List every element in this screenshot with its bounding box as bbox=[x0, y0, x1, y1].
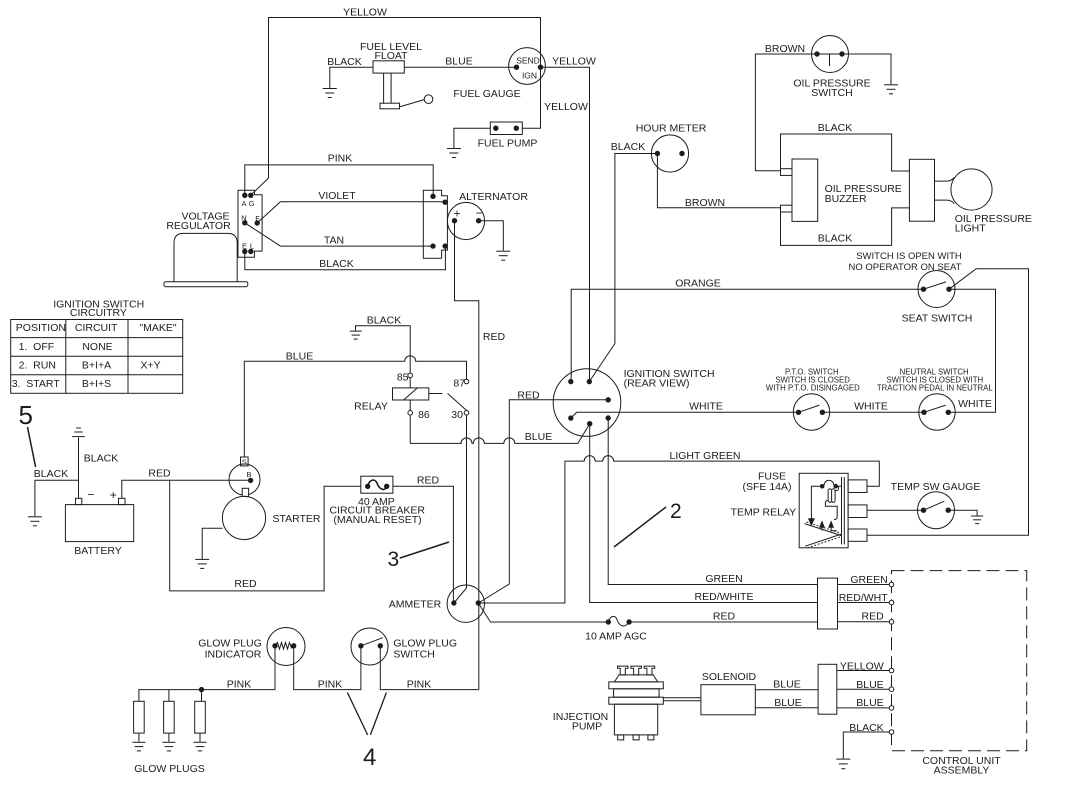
wire oil switch right to ground bbox=[842, 54, 898, 94]
svg-text:TEMP SW GAUGE: TEMP SW GAUGE bbox=[891, 481, 981, 493]
wire PINK regulator A to alternator connector bbox=[245, 165, 433, 196]
svg-text:BLUE: BLUE bbox=[445, 56, 472, 68]
svg-text:TRACTION PEDAL IN NEUTRAL: TRACTION PEDAL IN NEUTRAL bbox=[877, 384, 993, 393]
glow plug indicator bbox=[267, 628, 305, 666]
wire PINK bus glow plugs to indicator bbox=[139, 646, 275, 702]
svg-text:BLACK: BLACK bbox=[849, 722, 883, 734]
svg-text:SOLENOID: SOLENOID bbox=[702, 671, 757, 683]
svg-text:YELLOW: YELLOW bbox=[552, 56, 596, 68]
svg-text:(REAR VIEW): (REAR VIEW) bbox=[624, 378, 690, 390]
svg-text:GREEN: GREEN bbox=[850, 574, 887, 586]
injection pump bbox=[609, 666, 664, 740]
svg-text:RED: RED bbox=[862, 610, 885, 622]
svg-text:85: 85 bbox=[397, 372, 409, 384]
oil pressure light socket bbox=[909, 159, 934, 221]
svg-text:TAN: TAN bbox=[324, 235, 344, 247]
svg-text:−: − bbox=[475, 206, 482, 220]
svg-text:WHITE: WHITE bbox=[689, 401, 723, 413]
svg-text:LIGHT GREEN: LIGHT GREEN bbox=[670, 450, 741, 462]
pipe injection pump to solenoid bbox=[663, 698, 701, 701]
svg-text:YELLOW: YELLOW bbox=[544, 101, 588, 113]
wire TAN regulator N to alternator connector bbox=[245, 223, 433, 246]
control unit assembly box bbox=[892, 571, 1027, 751]
svg-text:INDICATOR: INDICATOR bbox=[205, 649, 262, 661]
svg-text:CIRCUITRY: CIRCUITRY bbox=[70, 307, 127, 319]
wire relay 30 down to ammeter bbox=[454, 415, 467, 603]
glow plug switch bbox=[351, 628, 388, 665]
glow plugs (three) bbox=[132, 701, 206, 751]
wire RED fuse to connector bbox=[629, 621, 817, 623]
PTO switch bbox=[793, 394, 829, 430]
wire RED ignition to ammeter bbox=[478, 400, 608, 603]
svg-text:1. OFF: 1. OFF bbox=[19, 341, 55, 353]
svg-text:10 AMP AGC: 10 AMP AGC bbox=[585, 630, 647, 642]
svg-text:B+I+A: B+I+A bbox=[82, 359, 111, 371]
wire BLACK regulator E to alternator connector bbox=[245, 246, 446, 270]
svg-text:RELAY: RELAY bbox=[354, 401, 388, 413]
svg-text:BLUE: BLUE bbox=[856, 697, 883, 709]
voltage regulator body bbox=[164, 233, 248, 286]
svg-text:BUZZER: BUZZER bbox=[825, 193, 867, 205]
wire BLACK control unit to ground bbox=[836, 732, 889, 769]
svg-text:LIGHT: LIGHT bbox=[955, 223, 987, 235]
svg-text:YELLOW: YELLOW bbox=[343, 7, 387, 19]
svg-text:FLOAT: FLOAT bbox=[374, 50, 408, 62]
oil pressure buzzer bbox=[781, 159, 818, 221]
svg-text:RED/WHT: RED/WHT bbox=[839, 592, 889, 604]
ignition switch circuitry table bbox=[11, 298, 183, 393]
wire YELLOW top loop (regulator G to fuel gauge / fuel pump) bbox=[251, 18, 541, 196]
fuel gauge bbox=[509, 48, 546, 85]
svg-text:−: − bbox=[87, 488, 94, 502]
svg-text:RED: RED bbox=[417, 474, 440, 486]
wire BLUE solenoid upper bbox=[755, 689, 818, 691]
alternator bbox=[447, 202, 484, 239]
wire PINK indicator to glow switch bbox=[294, 646, 361, 690]
svg-text:(SFE 14A): (SFE 14A) bbox=[742, 481, 791, 493]
control unit terminals bbox=[889, 582, 894, 734]
regulator connector bbox=[238, 190, 262, 257]
svg-text:NO OPERATOR ON SEAT: NO OPERATOR ON SEAT bbox=[849, 262, 962, 273]
ignition switch bbox=[553, 369, 621, 437]
svg-text:B+I+S: B+I+S bbox=[82, 378, 111, 390]
svg-text:BROWN: BROWN bbox=[765, 43, 805, 55]
wire PINK glow switch to alternator RED line bbox=[380, 646, 479, 690]
svg-text:BLUE: BLUE bbox=[856, 679, 883, 691]
wire LIGHT GREEN ammeter to temp relay T1 (with hops) bbox=[478, 456, 879, 603]
hour meter bbox=[651, 135, 688, 172]
wire GREEN ignition to connector bbox=[608, 418, 817, 585]
svg-text:PINK: PINK bbox=[318, 679, 343, 691]
10 AMP AGC fuse bbox=[606, 616, 631, 626]
svg-text:VIOLET: VIOLET bbox=[318, 190, 356, 202]
seat switch bbox=[918, 271, 955, 308]
svg-text:BLACK: BLACK bbox=[84, 453, 118, 465]
neutral switch bbox=[919, 394, 955, 430]
svg-text:5: 5 bbox=[19, 400, 33, 430]
svg-text:AMMETER: AMMETER bbox=[389, 598, 442, 610]
connector harness right lower bbox=[818, 664, 837, 714]
svg-text:87: 87 bbox=[453, 378, 465, 390]
wire RED alternator plus down to ammeter and glow plug bus bbox=[455, 221, 479, 690]
wire BLUE starter S to relay 87 (with hop) bbox=[244, 356, 466, 457]
starter bbox=[222, 457, 265, 540]
wire VIOLET regulator F to alternator connector bbox=[257, 202, 445, 223]
svg-text:CIRCUIT: CIRCUIT bbox=[75, 322, 118, 334]
svg-text:B: B bbox=[246, 470, 251, 479]
svg-text:BLUE: BLUE bbox=[773, 679, 800, 691]
wire temp gauge to ground bbox=[948, 510, 983, 523]
svg-text:BLUE: BLUE bbox=[774, 697, 801, 709]
wire temp relay T2 to temp gauge bbox=[867, 509, 924, 511]
svg-text:RED: RED bbox=[234, 578, 257, 590]
wire starter motor to ground bbox=[195, 528, 222, 568]
svg-text:WHITE: WHITE bbox=[854, 401, 888, 413]
alternator connector bbox=[423, 190, 447, 258]
svg-text:RED: RED bbox=[517, 389, 540, 401]
svg-text:PINK: PINK bbox=[407, 679, 432, 691]
svg-text:SWITCH: SWITCH bbox=[811, 87, 852, 99]
wire relay 86 down to BLUE ignition wire bbox=[409, 415, 411, 443]
wires connector2 to control unit bbox=[837, 671, 890, 708]
svg-text:WHITE: WHITE bbox=[958, 398, 992, 410]
callout 5 bbox=[19, 400, 36, 467]
svg-text:ASSEMBLY: ASSEMBLY bbox=[934, 765, 990, 777]
wire seat switch to temp relay T3 bbox=[867, 269, 1029, 536]
wire BLUE solenoid lower bbox=[755, 707, 818, 709]
svg-text:BLUE: BLUE bbox=[286, 351, 313, 363]
svg-text:BLUE: BLUE bbox=[525, 431, 552, 443]
svg-text:BLACK: BLACK bbox=[34, 468, 68, 480]
svg-text:X+Y: X+Y bbox=[141, 359, 161, 371]
svg-text:SWITCH IS OPEN WITH: SWITCH IS OPEN WITH bbox=[856, 251, 962, 262]
svg-text:STARTER: STARTER bbox=[272, 513, 320, 525]
svg-text:A: A bbox=[241, 199, 246, 208]
svg-text:SEND: SEND bbox=[516, 56, 540, 66]
svg-text:ORANGE: ORANGE bbox=[675, 278, 721, 290]
svg-text:SEAT SWITCH: SEAT SWITCH bbox=[902, 313, 973, 325]
callout 3 bbox=[388, 542, 450, 571]
wire BLUE ignition to relay 86 (with hops) bbox=[410, 424, 590, 444]
svg-text:POSITION: POSITION bbox=[16, 322, 66, 334]
svg-text:RED: RED bbox=[483, 331, 506, 343]
svg-text:PUMP: PUMP bbox=[572, 721, 602, 733]
wire BLACK fuel float left + ground bbox=[323, 67, 373, 97]
callout 2 bbox=[614, 500, 682, 547]
svg-text:G: G bbox=[249, 199, 255, 208]
temp sw gauge bbox=[918, 492, 955, 529]
svg-text:PINK: PINK bbox=[328, 153, 353, 165]
svg-text:RED: RED bbox=[713, 610, 736, 622]
svg-text:S: S bbox=[242, 458, 247, 467]
ammeter bbox=[447, 585, 484, 622]
wire ORANGE ignition to seat switch bbox=[571, 289, 923, 381]
fuel level float bbox=[373, 61, 433, 109]
svg-text:FUEL PUMP: FUEL PUMP bbox=[478, 138, 538, 150]
svg-text:3: 3 bbox=[388, 548, 400, 571]
wire BLACK relay 85 to ground bbox=[350, 326, 411, 373]
svg-text:NONE: NONE bbox=[82, 341, 112, 353]
oil pressure switch bbox=[812, 36, 849, 73]
wire RED circuit breaker to ammeter bbox=[393, 486, 454, 603]
wire oil switch left to buzzer tab1 bbox=[755, 54, 817, 171]
svg-text:WITH P.T.O. DISINGAGED: WITH P.T.O. DISINGAGED bbox=[766, 384, 860, 393]
svg-text:BLACK: BLACK bbox=[611, 141, 645, 153]
svg-text:SWITCH: SWITCH bbox=[393, 649, 434, 661]
wires connector to control unit (GREEN RED/WHT RED) bbox=[838, 585, 890, 622]
battery bbox=[65, 488, 133, 542]
oil pressure buzzer loop top (BLACK) bbox=[781, 134, 910, 171]
svg-text:2. RUN: 2. RUN bbox=[19, 359, 56, 371]
svg-text:BLACK: BLACK bbox=[818, 233, 852, 245]
svg-text:GLOW PLUG: GLOW PLUG bbox=[198, 637, 262, 649]
svg-text:4: 4 bbox=[363, 744, 376, 771]
svg-text:2: 2 bbox=[670, 500, 682, 523]
svg-text:GLOW PLUGS: GLOW PLUGS bbox=[134, 763, 205, 775]
svg-text:RED/WHITE: RED/WHITE bbox=[695, 591, 754, 603]
wire WHITE ignition to PTO switch bbox=[571, 412, 799, 418]
svg-text:YELLOW: YELLOW bbox=[840, 660, 884, 672]
wire alternator minus to ground bbox=[479, 221, 511, 261]
fuel pump bbox=[490, 122, 522, 135]
svg-text:GREEN: GREEN bbox=[705, 573, 742, 585]
wire seat switch to neutral switch bbox=[948, 289, 995, 412]
svg-text:"MAKE": "MAKE" bbox=[139, 322, 176, 334]
connector harness right upper bbox=[818, 578, 838, 629]
wire BLACK battery minus to top ground bbox=[72, 428, 85, 498]
wire RED battery to circuit breaker bbox=[170, 480, 361, 591]
svg-text:BATTERY: BATTERY bbox=[74, 545, 121, 557]
circuit breaker 40 AMP bbox=[361, 476, 393, 493]
oil pressure buzzer loop bottom (BLACK) bbox=[781, 208, 910, 246]
wire RED ammeter to 10 AMP AGC fuse bbox=[478, 603, 608, 622]
wire fuel pump to ground bbox=[447, 128, 490, 157]
temp relay bbox=[799, 473, 867, 548]
wire BLUE float to gauge bbox=[404, 66, 516, 68]
svg-text:PINK: PINK bbox=[227, 679, 252, 691]
solenoid bbox=[701, 685, 755, 715]
wire RED battery plus to starter B bbox=[122, 480, 251, 498]
wire RED/WHITE ignition to connector bbox=[590, 424, 818, 603]
svg-text:BROWN: BROWN bbox=[685, 197, 725, 209]
svg-text:BLACK: BLACK bbox=[327, 56, 361, 68]
svg-text:(MANUAL RESET): (MANUAL RESET) bbox=[333, 514, 421, 526]
wire BLACK battery minus to ground left bbox=[28, 480, 79, 526]
svg-text:86: 86 bbox=[418, 409, 430, 421]
svg-text:IGN: IGN bbox=[522, 71, 537, 81]
svg-text:BLACK: BLACK bbox=[818, 122, 852, 134]
svg-text:+: + bbox=[110, 488, 117, 502]
svg-text:RED: RED bbox=[148, 468, 171, 480]
callout 4 bbox=[347, 693, 386, 772]
svg-text:GLOW PLUG: GLOW PLUG bbox=[393, 637, 457, 649]
svg-text:BLACK: BLACK bbox=[367, 314, 401, 326]
wire YELLOW gauge to ignition switch bbox=[541, 67, 590, 381]
svg-text:HOUR METER: HOUR METER bbox=[636, 123, 707, 135]
wire BROWN hour meter to buzzer bbox=[657, 154, 780, 208]
svg-text:BLACK: BLACK bbox=[319, 258, 353, 270]
svg-text:TEMP RELAY: TEMP RELAY bbox=[731, 507, 797, 519]
svg-text:30: 30 bbox=[451, 409, 463, 421]
svg-text:ALTERNATOR: ALTERNATOR bbox=[459, 191, 528, 203]
wire WHITE PTO to neutral switch bbox=[822, 411, 924, 413]
svg-text:FUEL GAUGE: FUEL GAUGE bbox=[453, 88, 520, 100]
oil pressure light bulb bbox=[935, 169, 993, 210]
svg-text:3. START: 3. START bbox=[12, 378, 61, 390]
wire BLACK hour meter to ignition switch bbox=[589, 154, 657, 382]
svg-text:REGULATOR: REGULATOR bbox=[166, 220, 231, 232]
relay bbox=[393, 372, 469, 422]
